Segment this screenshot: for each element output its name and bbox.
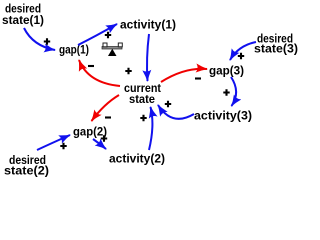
wire desired state(3) to gap(3) blue arrow (230, 42, 256, 60)
wire activity(3) to current state blue arrow (158, 105, 194, 119)
svg-text:activity(1): activity(1) (120, 18, 176, 32)
node current state (124, 81, 161, 106)
svg-text:state(2): state(2) (4, 164, 49, 178)
sign + on desired state(1)->gap(1) (44, 38, 50, 44)
wire current state to gap(2) red arrow (92, 95, 120, 121)
wire current state to gap(3) red arrow (161, 69, 207, 82)
svg-text:activity(2): activity(2) (109, 152, 165, 166)
svg-text:gap(1): gap(1) (59, 43, 89, 57)
balance icon (seesaw) (102, 43, 122, 56)
svg-text:gap(3): gap(3) (209, 64, 244, 78)
sign + on gap(2)->activity(2) (101, 135, 107, 141)
svg-text:state(3): state(3) (254, 42, 298, 56)
sign + on gap(1)->activity(1) (105, 32, 111, 38)
node desired state(2) (4, 153, 49, 178)
sign - on current state->gap(3) (195, 77, 201, 79)
sign - on current state->gap(2) (105, 116, 111, 118)
wire activity(2) to current state blue arrow (149, 107, 152, 150)
svg-text:gap(2): gap(2) (73, 125, 107, 139)
wire desired state(1) to gap(1) blue arrow (24, 28, 55, 50)
svg-text:activity(3): activity(3) (194, 109, 252, 123)
wire current state to gap(1) red arrow (79, 60, 120, 86)
balance left weight (103, 43, 107, 47)
sign + on gap(3)->activity(3) (223, 89, 229, 95)
sign + on desired state(2)->gap(2) (60, 143, 66, 149)
sign + on activity(3)->current state (165, 101, 171, 107)
wire gap(3) to activity(3) blue arrow (231, 77, 236, 106)
balance beam (102, 47, 122, 50)
node desired state(3) (254, 32, 298, 56)
svg-text:state(1): state(1) (2, 13, 44, 27)
wire desired state(2) to gap(2) blue arrow (37, 135, 70, 150)
sign + on activity(2)->current state (140, 115, 146, 121)
wire activity(1) to current state blue arrow (147, 34, 149, 81)
balance fulcrum triangle (108, 49, 117, 56)
sign + on desired state(3)->gap(3) (238, 53, 244, 59)
svg-text:state: state (129, 92, 155, 106)
wire gap(2) to activity(2) blue arrow (93, 139, 106, 149)
wire gap(1) to activity(1) blue arrow (78, 24, 117, 45)
sign - on current state->gap(1) (88, 65, 94, 67)
sign + on activity(1)->current state (125, 68, 131, 74)
balance right weight (118, 43, 122, 47)
node desired state(1) (2, 2, 44, 27)
